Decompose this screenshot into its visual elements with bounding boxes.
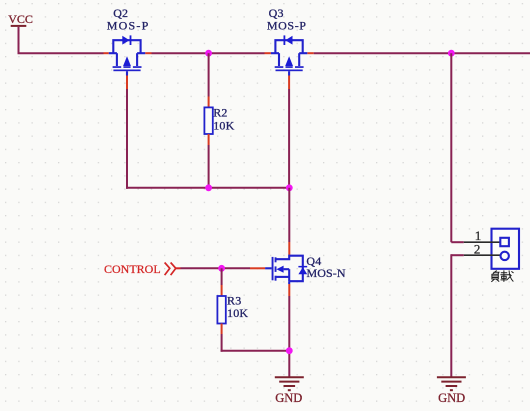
wire right branch bbox=[451, 53, 464, 377]
body of Q2 bbox=[113, 40, 140, 53]
wire CONTROL to Q4 gate bbox=[181, 267, 266, 269]
svg-text:10K: 10K bbox=[227, 306, 248, 320]
wire Q4 drain bbox=[288, 188, 290, 255]
transistor Q4 MOS-N bbox=[265, 254, 346, 284]
junction node rail-right branch bbox=[448, 50, 455, 57]
junction node rail-R2 bbox=[205, 50, 212, 57]
svg-text:MOS-N: MOS-N bbox=[307, 266, 346, 280]
connector J1 load bbox=[464, 228, 519, 269]
junction node CONTROL-R3 bbox=[218, 265, 225, 272]
pin 1 bbox=[464, 241, 500, 243]
wire R3 to Q4 source bbox=[221, 350, 290, 352]
svg-text:GND: GND bbox=[275, 391, 302, 405]
transistor Q3 MOS-P bbox=[267, 6, 307, 75]
svg-text:R3: R3 bbox=[227, 293, 241, 307]
port CONTROL bbox=[104, 262, 181, 276]
svg-text:MOS-P: MOS-P bbox=[267, 19, 307, 33]
ground GND left bbox=[275, 377, 304, 405]
transistor Q2 MOS-P bbox=[107, 6, 150, 75]
svg-text:MOS-P: MOS-P bbox=[107, 19, 150, 33]
wire main VCC rail bbox=[18, 52, 530, 54]
power symbol VCC bbox=[8, 12, 33, 53]
junction node source-R3 bbox=[286, 347, 293, 354]
label 负载 (load) bbox=[492, 271, 514, 282]
terminals bbox=[500, 238, 509, 246]
resistor R2 bbox=[204, 53, 234, 188]
wire Q4 source to GND bbox=[288, 284, 290, 377]
body of Q3 bbox=[275, 40, 302, 53]
svg-text:CONTROL: CONTROL bbox=[104, 262, 161, 276]
wire gate net Q2-Q3-Q4 bbox=[126, 76, 289, 189]
resistor R3 bbox=[217, 268, 248, 351]
junction node gate wire R2 bbox=[205, 184, 212, 191]
svg-text:GND: GND bbox=[438, 391, 465, 405]
body of Q4 bbox=[265, 267, 272, 269]
junction node gate wire Q4 drain bbox=[286, 184, 293, 191]
svg-text:VCC: VCC bbox=[8, 12, 33, 26]
svg-text:R2: R2 bbox=[213, 106, 227, 120]
pin 2 bbox=[464, 254, 501, 256]
svg-text:10K: 10K bbox=[213, 119, 234, 133]
ground GND right bbox=[437, 377, 466, 405]
svg-text:2: 2 bbox=[474, 241, 481, 256]
